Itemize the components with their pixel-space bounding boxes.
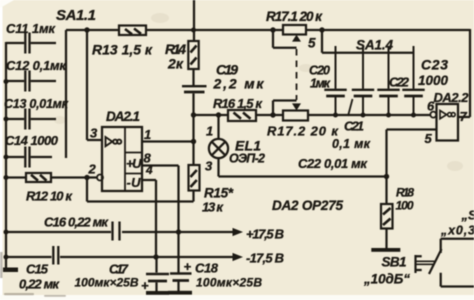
svg-text:SB1: SB1 xyxy=(382,255,407,270)
svg-text:R13 1,5 к: R13 1,5 к xyxy=(92,42,153,58)
svg-text:100мк×25В: 100мк×25В xyxy=(75,276,139,290)
svg-text:C21: C21 xyxy=(344,119,364,134)
svg-text:C15: C15 xyxy=(26,262,49,277)
svg-text:4: 4 xyxy=(145,163,153,177)
svg-text:DA2.1: DA2.1 xyxy=(106,109,140,124)
svg-text:R16 1,5 к: R16 1,5 к xyxy=(213,96,263,111)
svg-text:1000: 1000 xyxy=(418,73,448,88)
svg-text:C18: C18 xyxy=(195,261,219,276)
svg-text:1: 1 xyxy=(206,124,213,139)
svg-text:C23: C23 xyxy=(421,57,448,73)
svg-text:1мк: 1мк xyxy=(310,77,331,91)
svg-text:C20: C20 xyxy=(309,64,330,78)
svg-text:13 к: 13 к xyxy=(202,200,224,215)
svg-text:2к: 2к xyxy=(167,56,184,72)
svg-text:„10дБ“: „10дБ“ xyxy=(363,272,410,287)
svg-text:2,2 мк: 2,2 мк xyxy=(213,76,265,92)
svg-text:100мк×25В: 100мк×25В xyxy=(196,276,262,290)
svg-text:100: 100 xyxy=(396,199,414,213)
svg-text:2: 2 xyxy=(88,162,97,177)
svg-text:„х0,3: „х0,3 xyxy=(440,224,474,238)
svg-text:5: 5 xyxy=(425,131,433,146)
svg-text:C16 0,22 мк: C16 0,22 мк xyxy=(44,215,109,230)
svg-text:C22: C22 xyxy=(389,75,410,90)
svg-text:5: 5 xyxy=(308,36,316,51)
svg-text:-U: -U xyxy=(127,175,142,190)
svg-text:R15*: R15* xyxy=(204,186,234,201)
svg-text:3: 3 xyxy=(90,126,98,141)
svg-text:+: + xyxy=(184,259,192,274)
svg-text:R17.2 20 к: R17.2 20 к xyxy=(267,124,339,139)
svg-text:C12 0,1мк: C12 0,1мк xyxy=(6,58,67,73)
svg-text:SA1.1: SA1.1 xyxy=(56,7,96,24)
svg-text:0,22 мк: 0,22 мк xyxy=(19,277,60,292)
svg-text:C13 0,01мк: C13 0,01мк xyxy=(4,97,69,111)
svg-text:3: 3 xyxy=(205,159,213,174)
svg-text:+17,5 В: +17,5 В xyxy=(246,227,284,242)
svg-text:R12 10 к: R12 10 к xyxy=(26,189,73,204)
svg-text:6: 6 xyxy=(427,99,435,114)
svg-text:C17: C17 xyxy=(109,262,129,277)
svg-text:DA2.2: DA2.2 xyxy=(434,90,470,105)
svg-text:ОЭП-2: ОЭП-2 xyxy=(229,152,265,166)
svg-text:C22 0,01 мк: C22 0,01 мк xyxy=(298,156,368,171)
svg-text:R18: R18 xyxy=(396,186,414,200)
svg-text:R17.1 20 к: R17.1 20 к xyxy=(266,9,323,24)
svg-text:+U: +U xyxy=(126,156,142,171)
svg-text:7: 7 xyxy=(460,109,468,124)
svg-text:+: + xyxy=(141,278,149,293)
svg-text:C14 1000: C14 1000 xyxy=(5,133,59,148)
svg-text:0,1 мк: 0,1 мк xyxy=(332,137,371,151)
svg-text:„S: „S xyxy=(461,208,474,223)
svg-text:DA2 ОР275: DA2 ОР275 xyxy=(272,198,343,213)
svg-text:-17,5 В: -17,5 В xyxy=(246,251,284,266)
svg-text:SA1.4: SA1.4 xyxy=(356,38,393,53)
svg-text:1: 1 xyxy=(144,127,151,142)
svg-text:C11 1мк: C11 1мк xyxy=(6,21,56,36)
